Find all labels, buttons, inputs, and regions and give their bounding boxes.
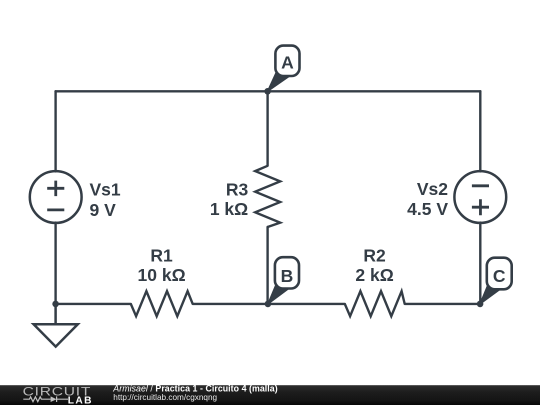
node A flag [268,46,300,92]
svg-text:10 kΩ: 10 kΩ [138,265,186,285]
wire bottom right segment [405,303,480,305]
label Vs2 value [407,179,448,219]
svg-text:R2: R2 [363,245,386,265]
wire R3 top lead [266,91,268,166]
label R2 value [355,245,393,285]
footer logo resistor-diode line [23,396,68,402]
wire bottom left segment [56,303,131,305]
label R1 value [138,245,186,285]
footer logo CIRCUIT [23,384,92,398]
svg-text:B: B [281,266,294,286]
svg-text:4.5 V: 4.5 V [407,199,448,219]
wire top horizontal [56,90,481,92]
wire bottom middle segment [193,303,345,305]
svg-text:C: C [493,266,506,286]
resistor R1 [131,291,193,316]
node C junction dot [477,301,484,308]
ground [34,304,78,347]
node C flag [480,258,512,304]
wire right vertical lower [479,223,481,304]
svg-text:R3: R3 [226,179,249,199]
svg-text:1 kΩ: 1 kΩ [210,199,248,219]
label R3 value [210,179,249,218]
svg-text:Vs2: Vs2 [417,179,448,199]
svg-text:LAB: LAB [68,396,93,405]
svg-text:Vs1: Vs1 [90,179,121,199]
label Vs1 value [90,179,121,219]
resistor R2 [345,291,405,316]
svg-text:R1: R1 [150,245,173,265]
footer bar [0,385,540,405]
node B flag [268,257,299,304]
node A junction dot [264,88,271,95]
ground junction dot [52,301,59,308]
voltage source Vs1 [30,171,82,223]
resistor R3 [255,166,280,227]
wire right vertical upper [479,91,481,171]
wire R3 bottom lead [266,227,268,304]
svg-text:A: A [281,53,294,73]
svg-text:http://circuitlab.com/cgxnqng: http://circuitlab.com/cgxnqng [113,393,217,402]
svg-text:2 kΩ: 2 kΩ [355,265,393,285]
svg-text:9 V: 9 V [90,200,117,220]
wire left vertical upper [54,91,56,171]
node B junction dot [265,301,272,308]
wire left vertical lower [54,223,56,304]
voltage source Vs2 [454,171,506,223]
